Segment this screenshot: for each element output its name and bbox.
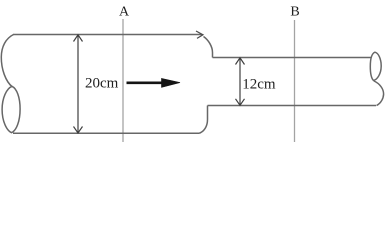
wire wide pipe bottom line <box>13 132 199 134</box>
wire wide pipe left end ellipse <box>2 86 20 132</box>
wire narrow pipe right end ellipse <box>370 52 381 80</box>
wire narrow pipe top line <box>213 57 372 59</box>
wire wide pipe top-line arrowhead <box>196 31 203 38</box>
wire transition top curve <box>204 37 213 58</box>
dimension 12cm arrow <box>236 58 245 106</box>
section line A <box>122 19 124 142</box>
svg-text:B: B <box>290 5 299 20</box>
wire wide pipe top line <box>13 34 202 36</box>
svg-text:A: A <box>119 5 130 20</box>
wire narrow pipe bottom line <box>208 105 377 107</box>
section line B <box>294 20 296 142</box>
svg-text:12cm: 12cm <box>242 76 276 92</box>
dimension 20cm arrow <box>74 35 83 133</box>
svg-text:20cm: 20cm <box>85 76 119 92</box>
wire narrow pipe right end lower arc <box>374 81 384 106</box>
wire transition bottom curve <box>199 106 208 134</box>
flow arrow <box>127 78 181 87</box>
wire wide pipe left end arc <box>1 35 13 88</box>
